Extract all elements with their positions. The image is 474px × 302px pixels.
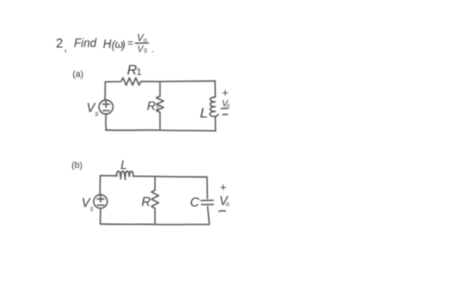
svg-text:R: R (142, 195, 151, 209)
svg-text:C: C (190, 195, 200, 210)
svg-text:s: s (90, 206, 94, 213)
svg-text:2: 2 (156, 106, 160, 113)
svg-text:1: 1 (137, 67, 142, 77)
svg-text:=: = (128, 39, 134, 50)
svg-text:Find: Find (74, 38, 97, 50)
svg-text:s: s (95, 111, 99, 118)
svg-text:L: L (200, 105, 208, 121)
svg-text:o: o (226, 201, 230, 208)
svg-text:+: + (220, 182, 226, 194)
svg-text:L: L (121, 158, 128, 172)
svg-text:s: s (144, 47, 148, 54)
svg-text:(a): (a) (73, 69, 84, 79)
svg-text:.: . (152, 44, 155, 54)
svg-text:(b): (b) (72, 160, 83, 170)
svg-text:,: , (64, 42, 67, 54)
svg-text:2: 2 (56, 37, 63, 51)
